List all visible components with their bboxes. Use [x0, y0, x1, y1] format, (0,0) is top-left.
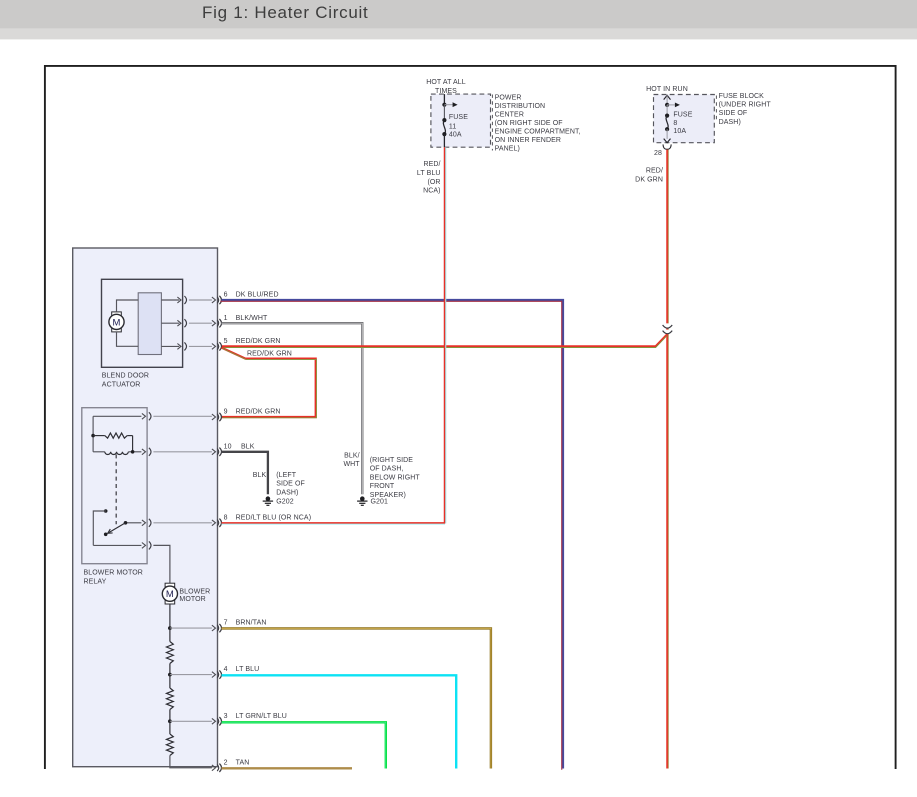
connector pin 1 [212, 319, 222, 327]
svg-text:RED/DK GRN: RED/DK GRN [236, 409, 281, 416]
svg-text:BRN/TAN: BRN/TAN [236, 620, 267, 627]
relay coil [93, 452, 141, 455]
actuator pin line y=300.0 [161, 296, 212, 304]
node feed arrow up (fuse 8) [664, 95, 680, 107]
label (LEFT SIDE OF DASH) [276, 472, 305, 497]
blower resistor 1 [167, 628, 174, 675]
svg-text:G202: G202 [276, 498, 294, 505]
connector pin 4 [212, 670, 222, 678]
svg-text:LT BLU: LT BLU [236, 666, 260, 673]
label (RIGHT SIDE OF DASH, BELOW RIGHT FRONT SPEAKER) [370, 457, 421, 499]
node B+ feed arrow (fuse 11) [442, 94, 457, 107]
HVAC assembly box [73, 248, 218, 767]
actuator drive block [138, 293, 161, 355]
junction dot (resistor top) [91, 434, 95, 438]
label HOT IN RUN [646, 86, 688, 93]
svg-text:LT GRN/LT BLU: LT GRN/LT BLU [236, 713, 287, 720]
svg-text:RED/: RED/ [423, 161, 440, 168]
svg-text:DK GRN: DK GRN [635, 176, 663, 183]
wire RED/DK GRN from fuse 8 [666, 150, 669, 769]
actuator pin line y=346.4 [161, 342, 212, 350]
label G202 [276, 498, 294, 505]
svg-text:6: 6 [224, 292, 228, 299]
label BLEND DOOR ACTUATOR [102, 373, 149, 389]
label BLK/WHT (G201 wire) [343, 452, 360, 468]
label 3 LT GRN/LT BLU [224, 713, 287, 720]
svg-text:2: 2 [224, 759, 228, 766]
fuse 8 10A [664, 105, 671, 143]
connector pin 2 [212, 764, 222, 772]
wire BLK/WHT pin 1 to G201 [222, 323, 363, 494]
svg-text:BLK/: BLK/ [344, 452, 360, 459]
svg-text:CENTER: CENTER [495, 111, 524, 118]
svg-text:DISTRIBUTION: DISTRIBUTION [495, 103, 546, 110]
svg-text:M: M [112, 317, 120, 328]
connector pin 28 socket [663, 144, 671, 149]
svg-text:DASH): DASH) [276, 490, 298, 497]
svg-text:BLOWER MOTOR: BLOWER MOTOR [84, 570, 143, 577]
resistor (relay, parallel) [93, 433, 133, 452]
svg-text:SIDE OF: SIDE OF [276, 481, 305, 488]
svg-text:BLK/WHT: BLK/WHT [236, 315, 268, 322]
wire RED/DK GRN jumper pin 5 to pin 9 [222, 348, 317, 418]
actuator pin line y=323.2 [161, 319, 212, 327]
svg-text:HOT IN RUN: HOT IN RUN [646, 86, 688, 93]
label HOT AT ALL TIMES [426, 79, 466, 95]
svg-text:ENGINE COMPARTMENT,: ENGINE COMPARTMENT, [495, 129, 581, 136]
svg-text:FUSE: FUSE [673, 111, 692, 118]
label FUSE 8 10A [673, 111, 692, 135]
wire relay to blower motor [153, 545, 170, 586]
motor M (blower motor) [162, 583, 177, 604]
junction dot tap 7 [168, 626, 172, 630]
relay link (dashed) [115, 454, 117, 524]
svg-text:(ON RIGHT SIDE OF: (ON RIGHT SIDE OF [495, 120, 563, 127]
wire RED/LT BLU from fuse 11 to pin 8 [444, 147, 447, 523]
svg-text:(UNDER RIGHT: (UNDER RIGHT [719, 102, 772, 109]
label RED/DK GRN [635, 168, 663, 184]
junction dot tap 3 [168, 719, 172, 723]
label G201 [371, 498, 389, 505]
wire RED/DK GRN branch to pin 5 [222, 335, 667, 348]
svg-text:G201: G201 [371, 498, 389, 505]
svg-text:OF DASH,: OF DASH, [370, 466, 404, 473]
label 28 [654, 150, 662, 157]
relay pin connector y=545.4 [142, 541, 151, 549]
svg-text:BELOW RIGHT: BELOW RIGHT [370, 474, 421, 481]
svg-text:DK BLU/RED: DK BLU/RED [236, 292, 279, 299]
relay pin connector y=451.8 [142, 448, 151, 456]
label 9 RED/DK GRN [224, 409, 281, 416]
svg-text:10A: 10A [673, 128, 686, 135]
connector pin 3 [212, 717, 222, 725]
connector pin 10 [212, 448, 222, 456]
svg-text:5: 5 [224, 338, 228, 345]
label BLOWER MOTOR RELAY [84, 570, 143, 586]
label 1 BLK/WHT [224, 315, 268, 322]
svg-text:BLK: BLK [241, 443, 255, 450]
connector pin 7 [212, 624, 222, 632]
relay-to-edge line y=416.3 [153, 415, 212, 417]
svg-text:FUSE BLOCK: FUSE BLOCK [719, 93, 765, 100]
svg-text:3: 3 [224, 713, 228, 720]
svg-text:10: 10 [224, 443, 232, 450]
fuse 11 40A [442, 105, 446, 148]
svg-text:RED/: RED/ [646, 168, 663, 175]
inline connector on RED/DK GRN [663, 323, 673, 333]
blend door actuator box [102, 279, 183, 367]
svg-text:7: 7 [224, 620, 228, 627]
svg-text:MOTOR: MOTOR [179, 596, 205, 603]
blower motor output wire [169, 604, 171, 628]
relay pin connector y=522.8 [142, 519, 151, 527]
svg-text:(LEFT: (LEFT [276, 472, 297, 479]
svg-text:(RIGHT SIDE: (RIGHT SIDE [370, 457, 414, 464]
label 8 RED/LT BLU (OR NCA) [224, 514, 312, 521]
blower resistor 3 [167, 721, 212, 768]
label 10 BLK [224, 443, 255, 450]
connector pin 9 [212, 413, 222, 421]
svg-text:PANEL): PANEL) [495, 146, 520, 153]
svg-text:RED/DK GRN: RED/DK GRN [247, 351, 292, 358]
svg-text:(OR: (OR [427, 179, 440, 186]
tap line pin 3 [170, 720, 212, 722]
label 5 RED/DK GRN [224, 338, 281, 345]
label bracket (PDC) [491, 95, 493, 151]
wire BRN/TAN pin 7 [222, 628, 491, 768]
fuse block box (dashed) [654, 95, 715, 143]
motor M (blend door actuator) [109, 312, 124, 332]
wire DK BLU/RED pin 6 [220, 300, 563, 770]
svg-text:8: 8 [224, 514, 228, 521]
svg-text:4: 4 [224, 666, 228, 673]
label FUSE 11 40A [449, 114, 468, 138]
actuator motor wires [117, 300, 139, 346]
tap line pin 4 [170, 674, 212, 676]
svg-text:RED/LT BLU (OR NCA): RED/LT BLU (OR NCA) [236, 514, 312, 521]
connector pin 8 [212, 519, 222, 527]
label POWER DISTRIBUTION CENTER [495, 94, 581, 152]
svg-text:DASH): DASH) [719, 119, 741, 126]
wire LT BLU pin 4 [222, 675, 457, 768]
label FUSE BLOCK (UNDER RIGHT SIDE OF DASH) [716, 93, 771, 126]
relay-to-edge line y=522.8 [153, 522, 212, 524]
relay-to-edge line y=451.8 [153, 451, 212, 453]
svg-text:TIMES: TIMES [435, 88, 457, 95]
label 7 BRN/TAN [224, 620, 267, 627]
ground G202 [263, 496, 273, 505]
svg-text:SIDE OF: SIDE OF [719, 110, 748, 117]
label 6 DK BLU/RED [224, 292, 279, 299]
label BLK (G202 wire) [253, 472, 267, 479]
junction dot (coil/resistor) [131, 450, 135, 454]
svg-text:POWER: POWER [495, 94, 522, 101]
tap line pin 7 [170, 627, 212, 629]
svg-text:8: 8 [673, 120, 677, 127]
label BLOWER MOTOR [179, 588, 210, 603]
svg-text:11: 11 [449, 124, 456, 131]
svg-text:40A: 40A [449, 132, 462, 139]
svg-text:FUSE: FUSE [449, 114, 468, 121]
svg-text:1: 1 [224, 315, 228, 322]
wire BLK pin 10 to G202 [222, 452, 268, 494]
svg-text:Fig 1: Heater Circuit: Fig 1: Heater Circuit [202, 3, 369, 22]
figure title bar [0, 0, 917, 39]
relay pin connector y=416.3 [142, 412, 151, 420]
label 2 TAN [224, 759, 250, 766]
svg-text:RELAY: RELAY [84, 579, 107, 586]
relay feed line (pin to 9) [93, 416, 141, 452]
relay switch [93, 509, 141, 545]
label RED/LT BLU (OR NCA) [417, 161, 441, 194]
svg-text:WHT: WHT [343, 461, 360, 468]
svg-text:NCA): NCA) [423, 188, 441, 195]
power distribution center box (dashed) [431, 94, 491, 147]
ground G201 [357, 496, 367, 505]
svg-text:ACTUATOR: ACTUATOR [102, 382, 141, 389]
svg-text:BLEND DOOR: BLEND DOOR [102, 373, 149, 380]
wire LT GRN/LT BLU pin 3 [222, 722, 386, 768]
svg-text:M: M [166, 589, 174, 600]
label 4 LT BLU [224, 666, 260, 673]
blower motor relay box [82, 408, 147, 564]
junction dot tap 4 [168, 673, 172, 677]
wire RED/LT BLU pin 8 [222, 522, 445, 525]
svg-text:ON INNER FENDER: ON INNER FENDER [495, 137, 561, 144]
svg-text:28: 28 [654, 150, 662, 157]
svg-text:HOT AT ALL: HOT AT ALL [426, 79, 466, 86]
wire TAN pin 2 [222, 767, 353, 769]
svg-text:LT BLU: LT BLU [417, 170, 441, 177]
svg-text:FRONT: FRONT [370, 483, 395, 490]
connector pin 6 [212, 296, 222, 304]
svg-text:TAN: TAN [236, 759, 250, 766]
svg-text:BLK: BLK [253, 472, 267, 479]
connector pin 5 [212, 342, 222, 350]
svg-text:BLOWER: BLOWER [179, 588, 210, 595]
label RED/DK GRN (jumper wire) [247, 351, 292, 358]
blower resistor 2 [167, 675, 174, 722]
svg-text:RED/DK GRN: RED/DK GRN [236, 338, 281, 345]
svg-text:9: 9 [224, 409, 228, 416]
